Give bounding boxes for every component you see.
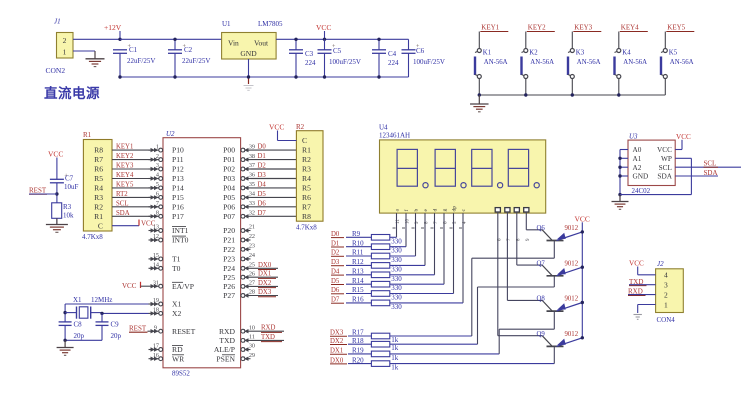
svg-text:RXD: RXD (261, 325, 275, 332)
svg-text:R5: R5 (302, 184, 311, 193)
svg-text:f: f (403, 210, 410, 212)
svg-text:1: 1 (63, 48, 67, 57)
svg-text:330: 330 (391, 275, 402, 283)
svg-text:K1: K1 (483, 50, 491, 57)
svg-text:SCL: SCL (116, 200, 128, 207)
svg-text:1k: 1k (391, 364, 399, 372)
svg-text:100uF/25V: 100uF/25V (329, 58, 361, 66)
svg-text:KEY2: KEY2 (528, 24, 546, 32)
svg-text:2: 2 (664, 290, 668, 299)
svg-text:U4: U4 (379, 124, 388, 132)
svg-text:20p: 20p (74, 332, 85, 340)
svg-text:Vin: Vin (228, 39, 239, 48)
svg-text:R3: R3 (63, 203, 72, 211)
svg-text:224: 224 (305, 59, 316, 67)
svg-text:A1: A1 (633, 154, 642, 163)
svg-text:2: 2 (63, 36, 67, 45)
svg-text:4.7Kx8: 4.7Kx8 (82, 233, 103, 241)
svg-text:KEY4: KEY4 (116, 172, 134, 179)
svg-text:DX3: DX3 (330, 330, 344, 337)
svg-text:9: 9 (154, 324, 157, 331)
svg-text:8: 8 (156, 210, 159, 217)
svg-text:R1: R1 (83, 131, 92, 139)
svg-text:330: 330 (391, 256, 402, 264)
svg-text:A2: A2 (633, 163, 642, 172)
svg-text:VCC: VCC (657, 145, 672, 154)
svg-text:37: 37 (249, 162, 255, 169)
svg-text:AN-56A: AN-56A (623, 59, 647, 66)
svg-text:AN-56A: AN-56A (670, 59, 694, 66)
svg-text:PSEN: PSEN (216, 354, 235, 363)
svg-text:P13: P13 (172, 174, 184, 183)
svg-text:22: 22 (249, 233, 255, 240)
svg-text:b: b (414, 209, 420, 212)
svg-text:17: 17 (153, 343, 159, 350)
svg-text:29: 29 (249, 352, 255, 359)
svg-text:WR: WR (172, 354, 185, 363)
svg-text:330: 330 (391, 294, 402, 302)
svg-text:P14: P14 (172, 184, 184, 193)
svg-text:R6: R6 (302, 193, 311, 202)
svg-text:P04: P04 (223, 184, 235, 193)
svg-text:R8: R8 (94, 146, 103, 155)
svg-text:J1: J1 (54, 18, 61, 26)
svg-text:DX1: DX1 (330, 348, 343, 355)
svg-text:P25: P25 (223, 273, 235, 282)
svg-text:34: 34 (249, 191, 255, 198)
svg-text:D6: D6 (331, 287, 340, 294)
svg-text:2: 2 (156, 153, 159, 160)
svg-text:D0: D0 (331, 231, 340, 238)
svg-text:7: 7 (156, 200, 159, 207)
svg-text:R4: R4 (94, 184, 103, 193)
svg-text:A0: A0 (633, 145, 642, 154)
svg-text:CON2: CON2 (46, 66, 66, 75)
svg-text:Q9: Q9 (537, 331, 546, 338)
svg-text:LM7805: LM7805 (258, 20, 283, 28)
svg-text:KEY3: KEY3 (574, 24, 592, 32)
svg-text:R2: R2 (302, 155, 311, 164)
svg-text:P07: P07 (223, 212, 235, 221)
svg-text:9012: 9012 (565, 331, 579, 338)
svg-text:P22: P22 (223, 245, 235, 254)
svg-text:TXD: TXD (219, 336, 235, 345)
svg-text:330: 330 (391, 303, 402, 311)
svg-text:P23: P23 (223, 255, 235, 264)
svg-text:224: 224 (388, 59, 399, 67)
svg-text:39: 39 (249, 143, 255, 150)
svg-text:C6: C6 (416, 47, 425, 55)
svg-text:DX2: DX2 (330, 338, 344, 345)
svg-text:DX0: DX0 (330, 357, 344, 364)
svg-text:35: 35 (249, 181, 255, 188)
svg-text:30: 30 (249, 343, 255, 350)
svg-text:TXD: TXD (261, 334, 275, 341)
svg-text:R8: R8 (302, 212, 311, 221)
svg-text:10: 10 (249, 324, 255, 331)
svg-text:D5: D5 (331, 278, 340, 285)
svg-text:KEY2: KEY2 (116, 153, 134, 160)
svg-text:K2: K2 (529, 50, 538, 57)
svg-text:C3: C3 (305, 50, 314, 58)
svg-text:RD: RD (172, 345, 183, 354)
svg-text:RT2: RT2 (116, 191, 128, 198)
svg-text:U1: U1 (222, 20, 231, 28)
svg-text:100uF/25V: 100uF/25V (413, 58, 445, 66)
svg-text:DX2: DX2 (258, 280, 272, 287)
svg-text:KEY1: KEY1 (481, 24, 499, 32)
svg-text:21: 21 (249, 224, 255, 231)
svg-text:C4: C4 (388, 50, 397, 58)
svg-text:SDA: SDA (657, 172, 672, 181)
svg-text:3: 3 (664, 281, 668, 290)
svg-text:Q8: Q8 (537, 296, 546, 303)
svg-text:C: C (302, 136, 307, 145)
svg-text:9012: 9012 (565, 296, 579, 303)
svg-text:10uF: 10uF (64, 183, 79, 191)
svg-text:330: 330 (391, 237, 402, 245)
svg-text:d: d (433, 209, 439, 212)
svg-text:K4: K4 (622, 50, 631, 57)
svg-text:R1: R1 (302, 146, 311, 155)
svg-text:38: 38 (249, 153, 255, 160)
svg-text:11: 11 (249, 334, 255, 341)
svg-text:14: 14 (153, 262, 159, 269)
svg-text:INT1: INT1 (172, 226, 189, 235)
svg-text:D3: D3 (331, 259, 340, 266)
svg-text:SDA: SDA (116, 210, 130, 217)
svg-text:R3: R3 (94, 193, 103, 202)
svg-text:P01: P01 (223, 155, 235, 164)
svg-text:VCC: VCC (122, 282, 137, 290)
svg-text:R4: R4 (302, 174, 311, 183)
svg-text:10k: 10k (63, 212, 74, 220)
svg-text:R3: R3 (302, 165, 311, 174)
svg-text:P16: P16 (172, 202, 184, 211)
svg-text:89S52: 89S52 (172, 370, 190, 378)
svg-text:28: 28 (249, 289, 255, 296)
svg-text:CON4: CON4 (657, 316, 676, 324)
svg-text:直流电源: 直流电源 (44, 85, 100, 101)
svg-text:10: 10 (406, 219, 411, 225)
svg-text:33: 33 (249, 200, 255, 207)
svg-text:D7: D7 (331, 297, 340, 304)
svg-text:330: 330 (391, 247, 402, 255)
svg-text:KEY4: KEY4 (621, 24, 639, 32)
svg-text:C: C (98, 221, 103, 230)
svg-text:P24: P24 (223, 264, 235, 273)
svg-text:P00: P00 (223, 146, 235, 155)
svg-text:P20: P20 (223, 226, 235, 235)
svg-text:RXD: RXD (219, 327, 236, 336)
svg-text:X1: X1 (73, 296, 82, 304)
svg-text:C8: C8 (74, 321, 83, 329)
svg-text:24: 24 (249, 252, 255, 259)
svg-text:C5: C5 (333, 47, 342, 55)
svg-text:P27: P27 (223, 291, 235, 300)
svg-text:32: 32 (249, 210, 255, 217)
svg-text:EA/VP: EA/VP (172, 282, 194, 291)
svg-text:R5: R5 (94, 174, 103, 183)
svg-text:1k: 1k (391, 336, 399, 344)
svg-text:23: 23 (249, 243, 255, 250)
svg-text:C2: C2 (184, 46, 193, 54)
svg-text:P05: P05 (223, 193, 235, 202)
svg-text:1: 1 (156, 143, 159, 150)
svg-text:P21: P21 (223, 236, 235, 245)
svg-text:KEY3: KEY3 (116, 163, 134, 170)
svg-text:X2: X2 (172, 309, 181, 318)
svg-text:GND: GND (633, 172, 649, 181)
svg-text:3: 3 (156, 162, 159, 169)
svg-text:U3: U3 (629, 133, 638, 141)
svg-text:12: 12 (153, 233, 159, 240)
svg-text:4: 4 (664, 271, 668, 280)
svg-text:SDA: SDA (704, 169, 718, 177)
svg-text:Q6: Q6 (537, 225, 546, 232)
svg-text:C9: C9 (111, 321, 120, 329)
svg-text:D4: D4 (331, 269, 340, 276)
svg-text:P02: P02 (223, 165, 235, 174)
svg-text:6: 6 (156, 191, 159, 198)
svg-text:123461AH: 123461AH (379, 132, 410, 140)
svg-text:D1: D1 (331, 240, 339, 247)
svg-text:20p: 20p (111, 332, 122, 340)
svg-text:C1: C1 (129, 46, 138, 54)
svg-text:KEY1: KEY1 (116, 144, 133, 151)
svg-text:P06: P06 (223, 202, 235, 211)
svg-text:g: g (442, 209, 448, 212)
svg-text:9012: 9012 (565, 225, 579, 232)
svg-text:SCL: SCL (704, 160, 717, 168)
svg-text:R7: R7 (94, 155, 103, 164)
svg-text:T1: T1 (172, 255, 181, 264)
svg-text:9012: 9012 (565, 260, 579, 267)
svg-text:DX0: DX0 (258, 262, 272, 269)
svg-text:REST: REST (129, 325, 147, 333)
svg-text:X1: X1 (172, 300, 181, 309)
svg-text:DX3: DX3 (258, 289, 272, 296)
svg-text:1k: 1k (391, 354, 399, 362)
svg-text:4.7Kx8: 4.7Kx8 (296, 224, 317, 232)
svg-text:P03: P03 (223, 174, 235, 183)
svg-text:22uF/25V: 22uF/25V (127, 57, 155, 65)
svg-text:VCC: VCC (269, 123, 284, 132)
svg-text:R2: R2 (296, 123, 305, 131)
svg-text:16: 16 (153, 352, 159, 359)
svg-text:KEY5: KEY5 (667, 24, 685, 32)
svg-text:J2: J2 (657, 260, 664, 268)
svg-text:26: 26 (249, 270, 255, 277)
svg-text:AN-56A: AN-56A (484, 59, 508, 66)
svg-text:P10: P10 (172, 146, 184, 155)
svg-text:P12: P12 (172, 165, 184, 174)
svg-text:C7: C7 (65, 175, 74, 183)
svg-text:R7: R7 (302, 202, 311, 211)
svg-text:VCC: VCC (48, 150, 63, 159)
svg-text:R6: R6 (94, 165, 103, 174)
svg-text:U2: U2 (166, 130, 175, 138)
svg-text:P17: P17 (172, 212, 184, 221)
svg-text:VCC: VCC (575, 214, 590, 223)
svg-text:4: 4 (156, 172, 159, 179)
svg-text:5: 5 (156, 181, 159, 188)
svg-text:Vout: Vout (254, 39, 269, 48)
svg-text:12MHz: 12MHz (91, 296, 112, 304)
svg-text:DX1: DX1 (258, 271, 271, 278)
svg-text:R1: R1 (94, 212, 103, 221)
svg-text:ALE/P: ALE/P (214, 345, 235, 354)
svg-text:330: 330 (391, 284, 402, 292)
svg-text:R2: R2 (94, 202, 103, 211)
svg-text:P15: P15 (172, 193, 184, 202)
svg-text:D2: D2 (331, 250, 340, 257)
svg-text:330: 330 (391, 265, 402, 273)
svg-text:INT0: INT0 (172, 236, 189, 245)
svg-text:K5: K5 (669, 50, 678, 57)
svg-text:24C02: 24C02 (632, 187, 651, 195)
svg-text:19: 19 (153, 297, 159, 304)
svg-text:1: 1 (664, 300, 668, 309)
svg-text:WP: WP (661, 154, 672, 163)
svg-text:1k: 1k (391, 344, 399, 352)
svg-text:Q7: Q7 (537, 260, 546, 267)
svg-text:13: 13 (153, 224, 159, 231)
svg-text:T0: T0 (172, 264, 181, 273)
svg-text:P11: P11 (172, 155, 184, 164)
svg-text:P26: P26 (223, 282, 235, 291)
svg-text:31: 31 (153, 279, 159, 286)
svg-text:GND: GND (240, 49, 257, 58)
svg-text:25: 25 (249, 262, 255, 269)
svg-text:VCC: VCC (676, 133, 691, 141)
svg-text:18: 18 (153, 307, 159, 314)
svg-text:22uF/25V: 22uF/25V (182, 57, 210, 65)
svg-text:VCC: VCC (629, 260, 644, 268)
svg-text:VCC: VCC (316, 23, 331, 32)
svg-text:SCL: SCL (659, 163, 673, 172)
svg-text:27: 27 (249, 280, 255, 287)
svg-text:11: 11 (396, 219, 401, 224)
svg-text:36: 36 (249, 172, 255, 179)
svg-text:K3: K3 (576, 50, 585, 57)
svg-text:dp: dp (452, 206, 458, 212)
svg-text:AN-56A: AN-56A (530, 59, 554, 66)
svg-text:+12V: +12V (104, 23, 122, 32)
svg-text:KEY5: KEY5 (116, 181, 134, 188)
svg-text:RESET: RESET (172, 327, 196, 336)
svg-text:REST: REST (29, 187, 47, 195)
svg-text:15: 15 (153, 252, 159, 259)
svg-text:9: 9 (526, 238, 531, 241)
svg-text:AN-56A: AN-56A (577, 59, 601, 66)
